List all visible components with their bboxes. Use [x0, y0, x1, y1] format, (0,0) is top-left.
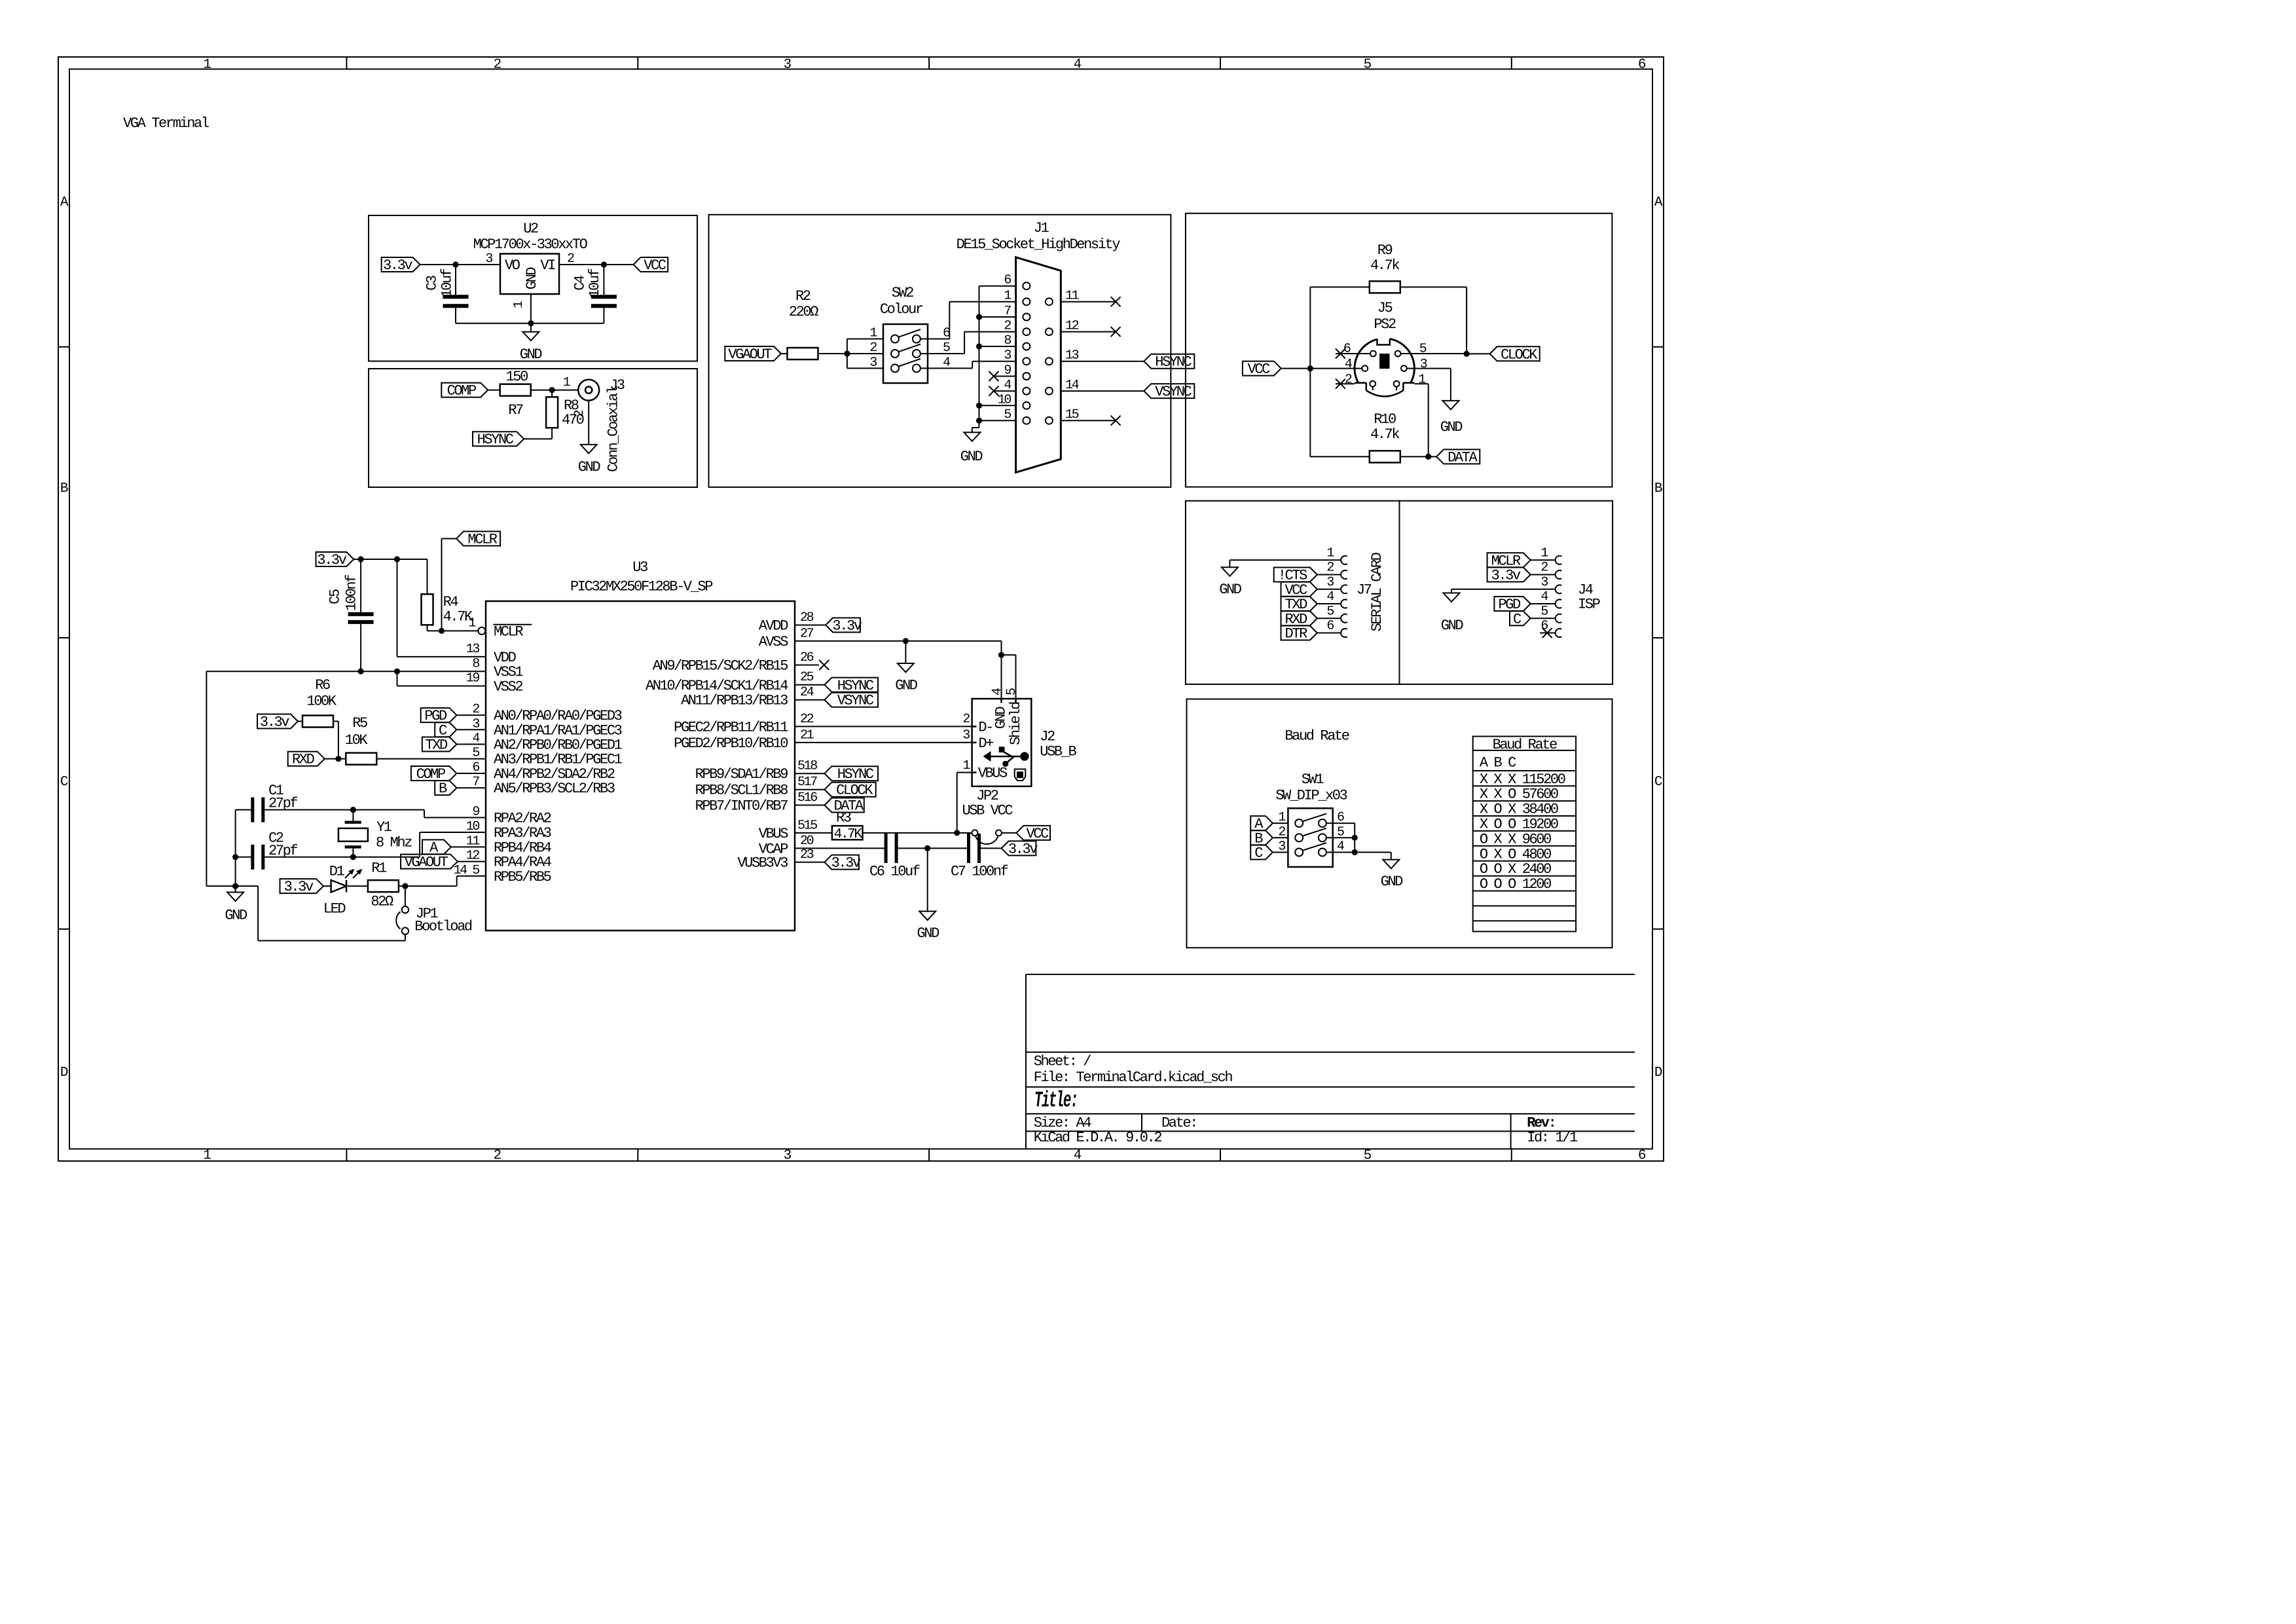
svg-text:24: 24 [800, 685, 814, 700]
svg-text:SW1: SW1 [1302, 771, 1324, 788]
svg-text:X O O 19200: X O O 19200 [1480, 817, 1558, 833]
svg-text:MCLR: MCLR [494, 623, 523, 640]
svg-text:VSYNC: VSYNC [1155, 384, 1192, 400]
svg-text:Size: A4: Size: A4 [1034, 1115, 1092, 1132]
svg-text:6: 6 [1638, 1149, 1646, 1164]
svg-text:File: TerminalCard.kicad_sch: File: TerminalCard.kicad_sch [1034, 1069, 1233, 1086]
svg-text:3: 3 [869, 355, 877, 370]
svg-text:X X O 57600: X X O 57600 [1480, 786, 1558, 803]
svg-text:4: 4 [1074, 58, 1082, 73]
svg-text:5: 5 [1540, 604, 1548, 619]
svg-text:3: 3 [1540, 575, 1548, 590]
svg-text:3: 3 [1420, 357, 1427, 372]
svg-text:3.3v: 3.3v [831, 855, 861, 872]
svg-text:VI: VI [540, 257, 555, 274]
svg-text:MCP1700x-330xxTO: MCP1700x-330xxTO [473, 236, 588, 253]
svg-text:6: 6 [1540, 619, 1548, 634]
svg-text:MCLR: MCLR [467, 532, 497, 548]
svg-text:VGA Terminal: VGA Terminal [123, 115, 209, 132]
svg-text:2: 2 [869, 341, 877, 356]
svg-text:Conn_Coaxial: Conn_Coaxial [606, 386, 622, 472]
svg-text:2: 2 [962, 712, 970, 727]
svg-text:28: 28 [800, 610, 814, 625]
svg-text:HSYNC: HSYNC [1155, 354, 1192, 371]
svg-text:3.3v: 3.3v [832, 618, 862, 635]
svg-text:B: B [60, 481, 68, 496]
svg-text:SERIAL CARD: SERIAL CARD [1369, 552, 1385, 631]
svg-text:J5: J5 [1377, 300, 1393, 316]
svg-text:5: 5 [1419, 342, 1427, 357]
svg-text:515: 515 [797, 818, 817, 833]
svg-text:27: 27 [800, 626, 814, 641]
svg-text:VGAOUT: VGAOUT [728, 346, 772, 363]
svg-text:D: D [1654, 1065, 1662, 1080]
svg-text:C: C [1654, 775, 1662, 790]
svg-text:D: D [60, 1065, 68, 1080]
svg-text:3.3v: 3.3v [284, 879, 314, 895]
svg-text:U2: U2 [523, 221, 538, 237]
svg-text:GND: GND [1219, 581, 1242, 598]
svg-text:5: 5 [1004, 688, 1019, 695]
svg-text:6: 6 [1638, 58, 1646, 73]
svg-text:X O X 38400: X O X 38400 [1480, 802, 1558, 818]
svg-text:D+: D+ [978, 735, 993, 752]
svg-text:RPB5/RB5: RPB5/RB5 [494, 869, 551, 885]
svg-text:D1: D1 [329, 864, 345, 880]
svg-text:VCC: VCC [1248, 361, 1271, 378]
svg-text:C3: C3 [424, 276, 441, 291]
svg-text:SW2: SW2 [892, 285, 914, 301]
svg-text:VSYNC: VSYNC [837, 693, 874, 709]
svg-text:1: 1 [203, 1149, 211, 1164]
svg-text:4: 4 [1004, 378, 1011, 393]
svg-text:VGAOUT: VGAOUT [405, 855, 448, 871]
svg-text:RXD: RXD [292, 752, 315, 768]
svg-text:Date:: Date: [1161, 1115, 1197, 1132]
svg-text:10: 10 [998, 392, 1011, 407]
svg-text:CLOCK: CLOCK [1501, 346, 1538, 363]
svg-text:9: 9 [1004, 363, 1011, 378]
svg-text:Shield: Shield [1008, 702, 1024, 745]
svg-text:4: 4 [1326, 589, 1334, 604]
svg-text:LED: LED [323, 901, 346, 917]
svg-text:PIC32MX250F128B-V_SP: PIC32MX250F128B-V_SP [570, 579, 713, 595]
svg-text:9: 9 [472, 805, 479, 820]
svg-text:2: 2 [494, 1149, 501, 1164]
svg-text:22: 22 [800, 712, 814, 727]
svg-text:RPB7/INT0/RB7: RPB7/INT0/RB7 [695, 798, 788, 815]
svg-text:R1: R1 [371, 860, 387, 877]
svg-text:2: 2 [1345, 372, 1352, 387]
svg-text:Id: 1/1: Id: 1/1 [1527, 1130, 1578, 1146]
svg-text:R9: R9 [1377, 242, 1393, 259]
svg-text:VO: VO [505, 257, 520, 274]
svg-text:8: 8 [1004, 333, 1011, 348]
svg-text:VBUS: VBUS [759, 826, 788, 842]
svg-text:20: 20 [800, 834, 814, 849]
svg-text:J1: J1 [1034, 220, 1049, 236]
svg-text:CLOCK: CLOCK [836, 783, 873, 799]
svg-text:HSYNC: HSYNC [477, 432, 514, 448]
svg-text:2: 2 [1540, 561, 1548, 576]
svg-text:R4: R4 [443, 594, 459, 610]
svg-text:4: 4 [1540, 589, 1548, 604]
svg-text:TXD: TXD [425, 737, 448, 754]
svg-text:26: 26 [800, 650, 814, 665]
svg-text:AN9/RPB15/SCK2/RB15: AN9/RPB15/SCK2/RB15 [653, 658, 788, 674]
svg-text:RPA2/RA2: RPA2/RA2 [494, 811, 551, 827]
svg-text:3.3v: 3.3v [1008, 841, 1038, 857]
svg-text:VUSB3V3: VUSB3V3 [737, 855, 788, 872]
svg-text:82Ω: 82Ω [371, 894, 393, 910]
svg-text:GND: GND [895, 678, 918, 694]
svg-text:R10: R10 [1374, 411, 1396, 428]
svg-text:R5: R5 [352, 715, 367, 731]
svg-text:23: 23 [800, 847, 814, 862]
svg-text:Y1: Y1 [376, 819, 392, 836]
svg-text:VCC: VCC [644, 257, 666, 274]
svg-text:GND: GND [524, 267, 540, 290]
svg-text:AN11/RPB13/RB13: AN11/RPB13/RB13 [681, 693, 788, 709]
svg-text:RPA3/RA3: RPA3/RA3 [494, 825, 551, 841]
svg-text:GND: GND [1381, 874, 1404, 890]
svg-text:R7: R7 [508, 402, 523, 418]
svg-text:10: 10 [466, 819, 480, 834]
svg-text:3: 3 [962, 728, 970, 743]
svg-text:10uf: 10uf [587, 268, 603, 297]
svg-text:J2: J2 [1040, 729, 1055, 745]
svg-text:DATA: DATA [1448, 449, 1478, 466]
svg-text:ISP: ISP [1578, 597, 1601, 613]
svg-text:PGED2/RPB10/RB10: PGED2/RPB10/RB10 [674, 735, 788, 752]
svg-text:TXD: TXD [1285, 597, 1307, 613]
svg-text:VBUS: VBUS [978, 766, 1008, 782]
svg-text:518: 518 [797, 759, 817, 774]
svg-text:VDD: VDD [494, 650, 517, 666]
svg-text:13: 13 [466, 642, 480, 657]
svg-text:X X X 115200: X X X 115200 [1480, 771, 1565, 788]
svg-text:PS2: PS2 [1374, 316, 1396, 333]
svg-text:VSS2: VSS2 [494, 679, 522, 695]
svg-text:Title:: Title: [1034, 1088, 1078, 1113]
svg-text:JP2: JP2 [976, 788, 998, 804]
svg-text:R3: R3 [836, 810, 851, 826]
svg-text:PGD: PGD [1498, 597, 1521, 613]
svg-text:GND: GND [1440, 419, 1463, 435]
svg-text:5: 5 [1364, 1149, 1372, 1164]
svg-text:COMP: COMP [447, 383, 477, 399]
svg-text:USB VCC: USB VCC [962, 802, 1013, 819]
svg-text:3: 3 [1004, 348, 1011, 363]
svg-text:10uf: 10uf [439, 268, 455, 297]
svg-text:517: 517 [797, 775, 817, 790]
svg-text:C5: C5 [327, 589, 344, 604]
svg-text:Colour: Colour [880, 301, 923, 318]
svg-text:4: 4 [1345, 357, 1352, 372]
svg-text:GND: GND [917, 925, 939, 942]
svg-text:2: 2 [1278, 824, 1285, 840]
svg-text:GND: GND [993, 707, 1010, 729]
svg-text:3: 3 [784, 1149, 792, 1164]
svg-text:3.3v: 3.3v [383, 257, 412, 274]
svg-text:AVDD: AVDD [759, 618, 788, 635]
svg-text:3: 3 [485, 251, 492, 267]
svg-text:4: 4 [990, 688, 1005, 695]
svg-text:4: 4 [1074, 1149, 1082, 1164]
svg-text:6: 6 [1343, 342, 1351, 357]
svg-text:DTR: DTR [1285, 626, 1307, 642]
svg-text:2: 2 [567, 251, 574, 267]
svg-text:VCC: VCC [1026, 826, 1049, 842]
svg-text:SW_DIP_x03: SW_DIP_x03 [1275, 787, 1347, 803]
svg-text:O O X 2400: O O X 2400 [1480, 861, 1551, 877]
svg-text:4.7k: 4.7k [1370, 426, 1400, 443]
svg-text:7: 7 [1004, 304, 1011, 319]
svg-text:19: 19 [466, 671, 480, 686]
svg-text:HSYNC: HSYNC [837, 766, 874, 783]
svg-text:6: 6 [1004, 273, 1011, 288]
svg-text:B: B [1654, 481, 1662, 496]
svg-text:O X O 4800: O X O 4800 [1480, 846, 1551, 862]
svg-text:8: 8 [472, 656, 479, 671]
svg-text:3: 3 [1326, 575, 1334, 590]
svg-text:2: 2 [494, 58, 501, 73]
svg-text:C7 100nf: C7 100nf [951, 863, 1008, 879]
svg-text:1: 1 [203, 58, 211, 73]
svg-text:150: 150 [505, 369, 528, 385]
svg-text:4.7k: 4.7k [1370, 257, 1400, 274]
svg-text:GND: GND [225, 908, 247, 924]
svg-text:Sheet: /: Sheet: / [1034, 1053, 1091, 1069]
svg-text:3.3v: 3.3v [260, 714, 289, 731]
svg-text:2: 2 [1326, 561, 1334, 576]
svg-text:21: 21 [800, 728, 814, 743]
svg-text:3: 3 [784, 58, 792, 73]
svg-text:RPB8/SCL1/RB8: RPB8/SCL1/RB8 [695, 783, 788, 799]
svg-text:DE15_Socket_HighDensity: DE15_Socket_HighDensity [957, 236, 1121, 253]
svg-text:Baud Rate: Baud Rate [1285, 728, 1349, 744]
svg-text:USB_B: USB_B [1040, 744, 1076, 760]
svg-text:VSS1: VSS1 [494, 664, 523, 680]
svg-text:O X X 9600: O X X 9600 [1480, 831, 1551, 847]
svg-text:D-: D- [978, 719, 993, 735]
svg-text:C6 10uf: C6 10uf [869, 863, 920, 879]
svg-text:100nf: 100nf [343, 575, 359, 611]
svg-text:100K: 100K [306, 693, 337, 710]
svg-text:AVSS: AVSS [759, 634, 788, 650]
svg-text:O O O 1200: O O O 1200 [1480, 876, 1551, 893]
svg-text:3.3v: 3.3v [317, 552, 346, 568]
svg-text:A B C: A B C [1480, 755, 1516, 771]
svg-text:RPB9/SDA1/RB9: RPB9/SDA1/RB9 [695, 766, 788, 783]
svg-text:4.7K: 4.7K [834, 827, 863, 842]
svg-text:HSYNC: HSYNC [837, 678, 874, 694]
svg-text:C4: C4 [572, 275, 588, 291]
svg-text:25: 25 [800, 670, 814, 685]
svg-text:GND: GND [520, 346, 543, 363]
svg-text:AN10/RPB14/SCK1/RB14: AN10/RPB14/SCK1/RB14 [646, 678, 788, 694]
svg-text:5: 5 [1326, 604, 1334, 619]
svg-text:2: 2 [1004, 319, 1011, 334]
svg-text:PGEC2/RPB11/RB11: PGEC2/RPB11/RB11 [674, 719, 788, 735]
svg-text:220Ω: 220Ω [789, 304, 818, 320]
svg-text:GND: GND [578, 459, 601, 475]
svg-text:C: C [60, 775, 68, 790]
svg-text:KiCad E.D.A. 9.0.2: KiCad E.D.A. 9.0.2 [1034, 1130, 1162, 1146]
svg-text:5: 5 [1004, 407, 1011, 422]
svg-text:6: 6 [1326, 619, 1334, 634]
svg-text:5: 5 [472, 746, 479, 761]
svg-text:5: 5 [1364, 58, 1372, 73]
svg-text:516: 516 [797, 790, 817, 805]
svg-text:8 Mhz: 8 Mhz [376, 835, 412, 851]
svg-text:AN5/RPB3/SCL2/RB3: AN5/RPB3/SCL2/RB3 [494, 781, 615, 797]
svg-text:GND: GND [1441, 618, 1464, 634]
svg-text:GND: GND [960, 449, 983, 465]
svg-text:Rev:: Rev: [1527, 1115, 1555, 1132]
svg-text:Bootload: Bootload [414, 919, 472, 935]
svg-text:AN3/RPB1/RB1/PGEC1: AN3/RPB1/RB1/PGEC1 [494, 752, 623, 768]
svg-text:10K: 10K [345, 732, 369, 748]
svg-text:R2: R2 [795, 288, 811, 304]
svg-text:3: 3 [1278, 840, 1285, 855]
svg-text:U3: U3 [632, 559, 647, 576]
svg-text:!CTS: !CTS [1278, 568, 1307, 584]
svg-text:R6: R6 [315, 677, 330, 693]
svg-text:2: 2 [572, 410, 587, 417]
svg-text:3.3v: 3.3v [1491, 568, 1521, 584]
